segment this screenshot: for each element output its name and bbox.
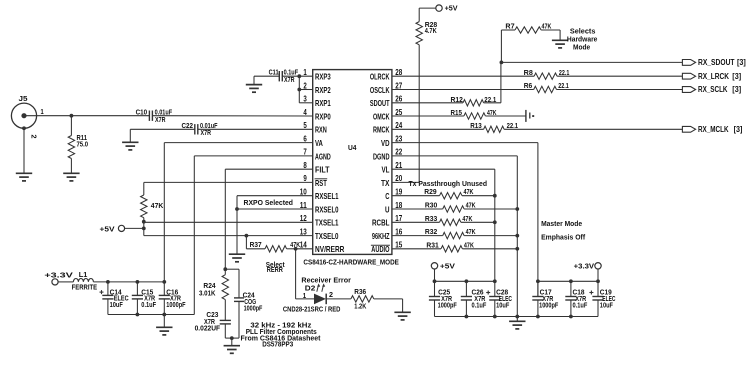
svg-text:27: 27 bbox=[395, 81, 402, 90]
svg-text:RERR: RERR bbox=[267, 267, 283, 274]
pin 15 AUDIO label bbox=[371, 241, 403, 255]
label Select RERR bbox=[266, 262, 285, 274]
wire digital ground rail bbox=[435, 315, 599, 322]
label Emphasis Off bbox=[541, 233, 585, 242]
svg-text:OSCLK: OSCLK bbox=[370, 86, 390, 95]
wire +5V to R28 bbox=[419, 8, 436, 22]
capacitor C22 0.01uF X7R bbox=[182, 123, 219, 137]
svg-text:9: 9 bbox=[303, 174, 307, 183]
svg-text:TXSEL1: TXSEL1 bbox=[315, 219, 339, 228]
wire R36 to ground bbox=[374, 299, 403, 312]
supply +5V bottom bbox=[431, 262, 455, 271]
pin 19 C label bbox=[385, 188, 402, 202]
svg-text:22.1: 22.1 bbox=[559, 70, 570, 77]
capacitor C10 0.01uF X7R bbox=[136, 110, 173, 124]
resistor 47K pullup on RST bbox=[141, 182, 164, 221]
capacitor C14 10uF ELEC bbox=[100, 282, 129, 315]
svg-text:RXP0: RXP0 bbox=[315, 112, 331, 121]
ground at C22 branch bbox=[122, 142, 138, 150]
wire R28 down to TX pin 20 bbox=[392, 45, 419, 183]
resistor R8 22.1 bbox=[392, 70, 683, 80]
pin 27 OSCLK label bbox=[370, 81, 403, 95]
J5 pin 2 label bbox=[30, 135, 39, 139]
svg-text:19: 19 bbox=[395, 188, 402, 197]
wire NV/RERR to LED anode bbox=[296, 249, 314, 299]
svg-text:8: 8 bbox=[303, 161, 307, 170]
pin 21 VL label bbox=[382, 161, 403, 175]
svg-text:R36: R36 bbox=[354, 289, 366, 296]
svg-text:Mode: Mode bbox=[573, 44, 590, 51]
svg-text:16: 16 bbox=[395, 227, 402, 236]
capacitor C23 0.022UF X7R bbox=[195, 312, 231, 338]
wire node to pin 12 TXSEL1 bbox=[144, 221, 313, 223]
svg-text:SDOUT: SDOUT bbox=[370, 99, 390, 108]
capacitor C24 1000pF COG bbox=[234, 293, 263, 339]
svg-text:28: 28 bbox=[395, 68, 402, 77]
svg-text:3.01K: 3.01K bbox=[199, 291, 216, 298]
LED D2 CND28-21SRC bbox=[283, 283, 341, 313]
svg-text:4: 4 bbox=[303, 108, 307, 117]
pin 11 RXSEL0 label bbox=[300, 201, 339, 215]
svg-text:AGND: AGND bbox=[315, 152, 331, 161]
svg-text:RCBL: RCBL bbox=[372, 219, 390, 228]
svg-text:R6: R6 bbox=[524, 83, 533, 90]
svg-text:X7R: X7R bbox=[201, 130, 212, 137]
svg-text:Receiver Error: Receiver Error bbox=[301, 277, 351, 284]
wire pin 10 RXSEL1 bbox=[235, 196, 313, 255]
svg-text:RXPO Selected: RXPO Selected bbox=[244, 198, 294, 207]
svg-text:14: 14 bbox=[300, 241, 307, 250]
svg-text:VA: VA bbox=[315, 139, 323, 148]
svg-text:X7R: X7R bbox=[284, 77, 295, 84]
wire J5 pin1 to C10 bbox=[24, 114, 149, 118]
resistor R12 22.1 bbox=[392, 62, 501, 106]
svg-text:+3.3V: +3.3V bbox=[44, 270, 73, 279]
svg-text:X7R: X7R bbox=[155, 117, 166, 124]
resistor R33 47K bbox=[392, 216, 495, 226]
svg-text:22.1: 22.1 bbox=[507, 123, 519, 130]
svg-text:1000pF: 1000pF bbox=[539, 303, 559, 310]
svg-text:OLRCK: OLRCK bbox=[370, 73, 390, 82]
svg-text:0.1uF: 0.1uF bbox=[141, 302, 156, 309]
pin 10 RXSEL1 label bbox=[300, 188, 339, 202]
pin 25 OMCK label bbox=[373, 108, 403, 122]
svg-text:[3]: [3] bbox=[737, 58, 746, 67]
label Selects Hardware Mode bbox=[567, 29, 598, 52]
svg-text:RXP2: RXP2 bbox=[315, 86, 331, 95]
svg-text:0.1uF: 0.1uF bbox=[472, 303, 487, 310]
pin 6 VA label bbox=[303, 134, 323, 148]
wire +5V to pullup node bbox=[125, 220, 146, 236]
wire R37 to pin 14 NV/RERR bbox=[294, 247, 313, 251]
svg-text:DS578PP3: DS578PP3 bbox=[262, 342, 293, 349]
resistor R7 47K bbox=[501, 23, 560, 62]
supply +3.3V left bbox=[44, 270, 73, 285]
svg-text:CND28-21SRC / RED: CND28-21SRC / RED bbox=[283, 306, 341, 313]
wire pin 23 VD to +3.3V rail bbox=[392, 143, 538, 297]
wire R7 to ground bbox=[559, 30, 561, 40]
svg-text:2: 2 bbox=[303, 81, 307, 90]
svg-text:TX: TX bbox=[381, 179, 390, 188]
svg-text:RXP1: RXP1 bbox=[315, 99, 331, 108]
svg-text:2: 2 bbox=[329, 292, 333, 299]
wire pin 7 AGND down to ground rail bbox=[194, 156, 312, 315]
svg-text:20: 20 bbox=[395, 174, 402, 183]
svg-text:26: 26 bbox=[395, 95, 402, 104]
pin 12 TXSEL1 label bbox=[300, 214, 339, 228]
pin 24 RMCK label bbox=[373, 121, 403, 135]
svg-text:4.7K: 4.7K bbox=[425, 28, 437, 35]
svg-text:NV/RERR: NV/RERR bbox=[315, 245, 344, 254]
wire C22 to pin 5 RXN bbox=[198, 128, 313, 130]
svg-text:R32: R32 bbox=[425, 229, 438, 236]
ground at RXSEL bbox=[229, 254, 245, 262]
svg-text:L1: L1 bbox=[79, 272, 88, 279]
svg-text:R8: R8 bbox=[524, 70, 533, 77]
resistor R13 22.1 bbox=[392, 123, 683, 133]
svg-text:+3.3V: +3.3V bbox=[574, 262, 595, 271]
svg-text:AUDIO: AUDIO bbox=[371, 245, 390, 254]
ground under PLL filter bbox=[224, 346, 240, 354]
svg-text:R7: R7 bbox=[505, 23, 514, 30]
svg-text:47K: 47K bbox=[466, 203, 476, 210]
svg-text:RX_LRCK: RX_LRCK bbox=[698, 72, 729, 81]
resistor R6 22.1 bbox=[392, 83, 683, 93]
wire C11 to RXP pins bbox=[282, 75, 312, 77]
svg-text:RX_SCLK: RX_SCLK bbox=[698, 85, 728, 94]
svg-text:10uF: 10uF bbox=[496, 303, 510, 310]
svg-text:1.2K: 1.2K bbox=[354, 304, 366, 311]
capacitor C26 0.1uF X7R bbox=[461, 281, 487, 316]
svg-text:RXSEL1: RXSEL1 bbox=[315, 192, 339, 201]
pin 20 TX label bbox=[381, 174, 403, 188]
pin 9 RST label bbox=[303, 174, 327, 188]
wire LED cathode to R36 bbox=[326, 298, 351, 300]
wire ground to C22 bbox=[130, 129, 195, 142]
pin 8 FILT label bbox=[303, 161, 329, 175]
pin 5 RXN label bbox=[303, 121, 326, 135]
svg-text:R13: R13 bbox=[470, 123, 482, 130]
node RXP tie vertical bbox=[297, 74, 301, 103]
resistor R36 1.2K bbox=[351, 289, 374, 311]
ground at R7 bbox=[552, 40, 568, 48]
svg-text:1: 1 bbox=[303, 293, 306, 300]
ground under C16 bbox=[156, 327, 172, 335]
svg-text:C22: C22 bbox=[182, 123, 194, 130]
svg-text:J5: J5 bbox=[19, 96, 28, 103]
svg-text:Master Mode: Master Mode bbox=[541, 219, 582, 228]
svg-text:U4: U4 bbox=[348, 143, 357, 152]
svg-text:47K: 47K bbox=[151, 203, 164, 210]
label CS8416 part name bbox=[303, 259, 399, 266]
capacitor C15 0.1uF X7R bbox=[132, 282, 157, 315]
pin 23 VD label bbox=[381, 134, 403, 148]
svg-text:22.1: 22.1 bbox=[558, 83, 569, 90]
capacitor C18 0.1uF X7R bbox=[565, 281, 588, 316]
svg-text:47K: 47K bbox=[487, 110, 497, 117]
svg-text:11: 11 bbox=[300, 201, 307, 210]
node RX_MCLK tag bbox=[682, 125, 742, 134]
svg-text:+5V: +5V bbox=[445, 4, 458, 13]
label Tx Passthrough Unused bbox=[409, 179, 488, 188]
svg-text:10uF: 10uF bbox=[600, 303, 614, 310]
wire to pin 3 RXP1 bbox=[299, 102, 312, 104]
pin 14 NV/RERR label bbox=[300, 241, 345, 255]
svg-text:22.1: 22.1 bbox=[484, 97, 496, 104]
svg-text:[3]: [3] bbox=[732, 85, 741, 94]
wire pin 22 DGND down bbox=[392, 156, 519, 317]
capacitor C16 1000pF X7R bbox=[159, 289, 186, 314]
svg-text:47K: 47K bbox=[464, 242, 474, 249]
resistor R24 3.01K bbox=[199, 275, 229, 321]
pin 17 RCBL label bbox=[372, 214, 403, 228]
node RX_LRCK tag bbox=[682, 72, 741, 81]
svg-text:10uF: 10uF bbox=[110, 302, 124, 309]
svg-text:21: 21 bbox=[395, 161, 402, 170]
capacitor C28 10uF ELEC bbox=[486, 281, 512, 316]
svg-text:R31: R31 bbox=[426, 242, 439, 249]
connector J5 (BNC) bbox=[11, 96, 36, 129]
capacitor C11 0.1uF X7R bbox=[269, 70, 299, 84]
svg-text:5: 5 bbox=[303, 121, 307, 130]
svg-text:47K: 47K bbox=[466, 229, 476, 236]
node RX_SCLK tag bbox=[682, 85, 741, 94]
svg-text:22: 22 bbox=[395, 148, 402, 157]
svg-text:0.1uF: 0.1uF bbox=[573, 303, 588, 310]
svg-text:17: 17 bbox=[395, 214, 402, 223]
svg-text:+5V: +5V bbox=[100, 224, 115, 233]
J5 pin 1 label bbox=[41, 109, 44, 116]
svg-text:12: 12 bbox=[300, 214, 307, 223]
svg-text:R30: R30 bbox=[425, 203, 438, 210]
pin 26 SDOUT label bbox=[370, 95, 403, 109]
svg-text:18: 18 bbox=[395, 201, 402, 210]
wire pin 9 RST left bbox=[144, 181, 313, 183]
svg-text:VD: VD bbox=[381, 139, 390, 148]
svg-text:1: 1 bbox=[303, 68, 307, 77]
pin 13 TXSEL0 label bbox=[300, 227, 339, 241]
svg-text:47K: 47K bbox=[464, 189, 474, 196]
wire +5V bottom rail bbox=[433, 269, 497, 283]
supply +5V top bbox=[436, 4, 458, 13]
svg-text:FERRITE: FERRITE bbox=[72, 285, 98, 292]
wire pin 8 FILT down to filter bbox=[223, 169, 312, 275]
svg-text:C11: C11 bbox=[269, 70, 279, 77]
svg-text:R15: R15 bbox=[451, 110, 463, 117]
pin 28 OLRCK label bbox=[370, 68, 403, 82]
ground at J5 pin2 bbox=[16, 173, 32, 181]
resistor R30 47K bbox=[392, 203, 517, 213]
svg-text:[3]: [3] bbox=[732, 72, 741, 81]
ground under DGND rail bbox=[509, 321, 525, 329]
svg-text:DGND: DGND bbox=[373, 152, 390, 161]
svg-text:23: 23 bbox=[395, 134, 402, 143]
capacitor stub at R15 bbox=[526, 110, 534, 122]
node RX_SDOUT tag bbox=[682, 58, 746, 67]
svg-text:7: 7 bbox=[303, 148, 307, 157]
svg-text:FILT: FILT bbox=[315, 166, 330, 175]
svg-text:R33: R33 bbox=[425, 216, 438, 223]
svg-text:Tx Passthrough Unused: Tx Passthrough Unused bbox=[409, 179, 488, 188]
svg-text:VL: VL bbox=[382, 166, 390, 175]
capacitor C17 1000pF X7R bbox=[532, 281, 559, 316]
resistor R28 4.7K bbox=[416, 22, 437, 45]
ground at C11 bbox=[246, 76, 262, 92]
svg-text:25: 25 bbox=[395, 108, 402, 117]
wire +3.3V bottom rail bbox=[536, 269, 600, 283]
svg-text:0.1uF: 0.1uF bbox=[284, 70, 299, 77]
svg-text:D2: D2 bbox=[305, 286, 316, 293]
wire filter bottom rail bbox=[225, 336, 239, 346]
svg-text:15: 15 bbox=[395, 241, 402, 250]
supply +5V left bbox=[100, 224, 125, 233]
wire to pin 2 RXP2 bbox=[299, 89, 312, 91]
svg-text:R24: R24 bbox=[203, 283, 215, 290]
wire C10 to pin 4 RXP0 bbox=[152, 115, 312, 117]
inductor L1 FERRITE bbox=[58, 272, 97, 292]
pin 22 DGND label bbox=[373, 148, 403, 162]
svg-text:Hardware: Hardware bbox=[567, 37, 598, 44]
svg-text:RX_MCLK: RX_MCLK bbox=[698, 125, 729, 134]
ground under R11 bbox=[63, 173, 79, 181]
pin 7 AGND label bbox=[303, 148, 330, 162]
resistor R32 47K bbox=[392, 229, 517, 239]
svg-text:U: U bbox=[385, 205, 390, 214]
svg-text:RXP3: RXP3 bbox=[315, 73, 331, 82]
svg-text:2: 2 bbox=[30, 135, 39, 139]
wire pin 6 VA down to +3.3V rail bbox=[164, 143, 312, 296]
svg-text:OMCK: OMCK bbox=[373, 112, 390, 121]
pin 4 RXP0 label bbox=[303, 108, 331, 122]
svg-text:96KHZ: 96KHZ bbox=[372, 232, 390, 241]
resistor R29 47K bbox=[392, 189, 495, 199]
svg-text:1000pF: 1000pF bbox=[244, 305, 263, 312]
wire node to pin 13 TXSEL0 bbox=[144, 234, 313, 238]
resistor R15 47K bbox=[392, 110, 526, 119]
wire ground to C11 bbox=[254, 75, 279, 77]
svg-text:Emphasis Off: Emphasis Off bbox=[541, 233, 585, 242]
pin 3 RXP1 label bbox=[303, 95, 331, 109]
svg-text:TXSEL0: TXSEL0 bbox=[315, 232, 339, 241]
svg-text:1000pF: 1000pF bbox=[438, 303, 458, 310]
svg-text:47K: 47K bbox=[542, 23, 552, 30]
svg-text:RMCK: RMCK bbox=[373, 126, 390, 135]
label RXPO Selected bbox=[244, 198, 294, 207]
label Receiver Error bbox=[301, 277, 351, 284]
svg-text:Selects: Selects bbox=[570, 29, 596, 36]
svg-text:RX_SDOUT: RX_SDOUT bbox=[698, 58, 735, 67]
svg-text:1000pF: 1000pF bbox=[166, 302, 186, 309]
label PLL filter note bbox=[241, 323, 322, 349]
pin 16 96KHZ label bbox=[372, 227, 403, 241]
svg-text:+5V: +5V bbox=[440, 262, 455, 271]
svg-text:R29: R29 bbox=[424, 189, 437, 196]
wire pin 21 VL to +5V rail bbox=[392, 169, 497, 281]
wire analog ground rail bbox=[108, 313, 194, 328]
op-amp U1 IC U4 CS8416 body bbox=[313, 70, 392, 255]
resistor R31 47K bbox=[392, 242, 517, 252]
resistor R37 47K bbox=[246, 236, 300, 252]
svg-text:47K: 47K bbox=[462, 216, 472, 223]
svg-text:R37: R37 bbox=[250, 242, 262, 249]
supply +3.3V bottom bbox=[574, 262, 602, 271]
label Master Mode bbox=[541, 219, 582, 228]
svg-text:6: 6 bbox=[303, 134, 307, 143]
svg-text:3: 3 bbox=[303, 95, 307, 104]
svg-text:R12: R12 bbox=[451, 97, 464, 104]
svg-text:CS8416-CZ-HARDWARE_MODE: CS8416-CZ-HARDWARE_MODE bbox=[303, 259, 399, 266]
svg-text:RST: RST bbox=[315, 179, 327, 188]
wire FILT node to C24 bbox=[225, 269, 239, 298]
wire J5 pin2 to ground bbox=[22, 126, 26, 173]
svg-text:13: 13 bbox=[300, 227, 307, 236]
wire pin 11 RXSEL0 bbox=[237, 208, 313, 210]
pin 2 RXP2 label bbox=[303, 81, 331, 95]
resistor R11 75.0 bbox=[68, 116, 88, 174]
pin 1 RXP3 label bbox=[303, 68, 331, 82]
capacitor C19 10uF ELEC bbox=[589, 281, 615, 316]
svg-text:10: 10 bbox=[300, 188, 307, 197]
svg-text:[3]: [3] bbox=[734, 125, 743, 134]
pin 18 U label bbox=[385, 201, 403, 215]
svg-text:1: 1 bbox=[41, 109, 44, 116]
wire +3.3V rail bbox=[93, 280, 166, 284]
svg-text:0.022UF: 0.022UF bbox=[195, 326, 221, 333]
svg-text:C: C bbox=[385, 192, 389, 201]
svg-text:24: 24 bbox=[395, 121, 402, 130]
svg-text:C10: C10 bbox=[136, 110, 148, 117]
svg-text:75.0: 75.0 bbox=[77, 142, 89, 149]
ground after R36 bbox=[394, 312, 410, 320]
capacitor C25 1000pF X7R bbox=[429, 281, 457, 316]
svg-text:RXSEL0: RXSEL0 bbox=[315, 205, 339, 214]
svg-text:RXN: RXN bbox=[315, 126, 327, 135]
wire SDOUT net to connector bbox=[500, 61, 683, 65]
